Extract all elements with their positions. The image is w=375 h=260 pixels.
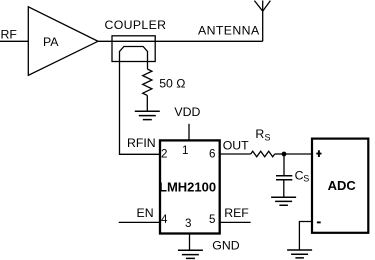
svg-text:GND: GND	[212, 238, 239, 252]
wire node down to capacitor	[283, 154, 285, 176]
svg-text:5: 5	[209, 213, 215, 226]
svg-text:RF: RF	[1, 27, 18, 41]
wire capacitor to ground	[283, 180, 285, 198]
svg-text:LMH2100: LMH2100	[159, 180, 216, 195]
svg-text:COUPLER: COUPLER	[105, 18, 167, 32]
wire RFIN to pin 2	[119, 153, 160, 155]
svg-text:C: C	[295, 169, 304, 183]
svg-text:ANTENNA: ANTENNA	[198, 24, 260, 38]
svg-text:OUT: OUT	[223, 138, 249, 152]
node junction dot	[282, 152, 287, 157]
antenna vee	[254, 1, 270, 12]
svg-text:6: 6	[209, 147, 215, 160]
wire VDD to pin 1	[188, 124, 190, 141]
ADC box	[312, 139, 368, 233]
ADC minus pin	[317, 221, 321, 223]
wire PA output to antenna	[98, 40, 263, 42]
label CS	[295, 169, 310, 184]
wire EN to pin 4	[119, 221, 160, 223]
label RS	[255, 127, 270, 143]
antenna mast	[262, 1, 264, 42]
svg-text:S: S	[303, 173, 309, 183]
svg-text:ADC: ADC	[328, 178, 357, 193]
ADC plus pin	[316, 150, 321, 157]
wire ADC minus to ground	[299, 222, 312, 251]
svg-text:PA: PA	[43, 35, 59, 49]
wire REF pin 5 stub	[220, 221, 251, 223]
svg-text:EN: EN	[137, 206, 154, 220]
wire pin 3 to ground	[189, 235, 191, 251]
ground G1	[135, 111, 160, 119]
svg-text:3: 3	[185, 217, 191, 230]
op-amp U1 LMH2100 body	[160, 140, 220, 233]
wire resistor to ground	[146, 95, 148, 111]
svg-text:VDD: VDD	[174, 105, 200, 119]
resistor 50 ohm	[143, 69, 152, 95]
wire node to ADC	[284, 153, 312, 155]
svg-text:REF: REF	[224, 206, 249, 220]
resistor RS	[251, 151, 275, 157]
amplifier PA	[28, 7, 98, 76]
svg-text:2: 2	[161, 147, 167, 160]
capacitor CS	[276, 176, 292, 180]
wire resistor to node	[275, 153, 284, 155]
wire OUT pin 6 to resistor	[220, 153, 251, 155]
coupler coupled line	[120, 47, 148, 155]
ground G2	[178, 250, 203, 258]
ground G4	[287, 250, 312, 258]
svg-text:RFIN: RFIN	[127, 136, 156, 150]
svg-text:R: R	[255, 127, 264, 141]
ground G3	[271, 197, 296, 205]
wire RF input	[0, 40, 28, 42]
coupler box	[112, 36, 155, 62]
svg-text:1: 1	[182, 144, 188, 157]
svg-text:S: S	[265, 133, 271, 143]
svg-text:4: 4	[161, 213, 168, 226]
svg-text:50 Ω: 50 Ω	[159, 77, 185, 91]
